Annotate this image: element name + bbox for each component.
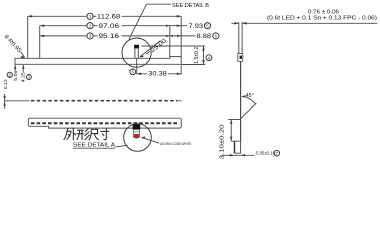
section FPC verticals (239, 22, 242, 54)
LED black cap (134, 45, 139, 49)
dim line 97.06 / 7.93 (40, 25, 187, 27)
寸 (101, 130, 109, 132)
45 deg arrow (241, 95, 246, 98)
svg-text:95.16: 95.16 (99, 34, 120, 40)
extension line left for dim 97.06 (39, 26, 41, 58)
extension line y=64.6 right (181, 64, 205, 66)
形 (77, 129, 83, 131)
leader to circle A (116, 145, 128, 147)
svg-text:7: 7 (276, 151, 279, 156)
svg-text:4.25: 4.25 (20, 72, 26, 82)
svg-text:LED BIN CODE WHITE: LED BIN CODE WHITE (160, 142, 192, 146)
dim 0.12 vertical with arrows (4, 94, 6, 109)
thin strip line (5, 100, 182, 102)
svg-text:(0.6t LED + 0.1 Sn + 0.13 FPC: (0.6t LED + 0.1 Sn + 0.13 FPC - 0.06) (267, 16, 377, 22)
LED A red bin mark (133, 134, 140, 138)
LED A lower outline (133, 129, 139, 134)
balloon 2 left (7, 72, 12, 77)
arrow 4.25 (22, 65, 24, 69)
LED section box (238, 54, 243, 62)
extension lines right cluster (169, 25, 171, 56)
45 deg bend line (241, 103, 256, 119)
LED U-body in detail B (135, 48, 138, 58)
detail circle B (122, 38, 151, 67)
arrow 5.06 (14, 65, 16, 69)
svg-text:SEE DETAIL A: SEE DETAIL A (73, 143, 116, 149)
dim line 112.68 (28, 15, 182, 17)
dim 5.05 line (222, 154, 255, 156)
svg-text:5.05±0.15: 5.05±0.15 (256, 150, 275, 156)
detail circle A (124, 124, 152, 152)
dim line 95.16 / 8.88 (40, 35, 196, 37)
balloon 3 left (26, 75, 31, 80)
ext tick y117 (228, 119, 241, 121)
balloon 5 (204, 23, 210, 29)
svg-text:0.12: 0.12 (3, 79, 9, 89)
bar outline (side view) (15, 57, 181, 65)
balloon 4 (206, 55, 212, 61)
svg-text:7.93: 7.93 (189, 24, 204, 30)
svg-text:SEE DETAIL B: SEE DETAIL B (172, 3, 209, 9)
balloon 3 (87, 33, 93, 39)
balloon 5b (130, 69, 136, 75)
pad dashes (31, 122, 177, 124)
balloon 7 (274, 150, 280, 156)
svg-text:5.06: 5.06 (13, 70, 19, 80)
svg-text:2: 2 (89, 23, 92, 28)
svg-text:3: 3 (28, 75, 31, 80)
svg-text:97.06: 97.06 (99, 24, 120, 30)
svg-text:45°: 45° (246, 93, 254, 99)
LED A black body (133, 124, 141, 129)
svg-text:3.10±0.20: 3.10±0.20 (219, 124, 225, 159)
dim line 0.76 (231, 22, 377, 24)
svg-text:5: 5 (132, 70, 135, 75)
balloon 2 (87, 23, 93, 29)
diagonal leader 25.00 (140, 41, 161, 57)
svg-text:1: 1 (89, 14, 92, 19)
外 (67, 128, 68, 131)
svg-text:1.5±0.2: 1.5±0.2 (194, 47, 200, 64)
尺 (91, 129, 97, 133)
dim 30.38 (136, 59, 138, 75)
extension line y=46 from LED to dim 4 (142, 45, 206, 47)
section lower vertical (240, 61, 242, 141)
extension line left for dim 112.68 (27, 16, 29, 58)
foot of section (231, 141, 241, 153)
svg-text:2: 2 (9, 72, 12, 77)
svg-text:112.68: 112.68 (97, 14, 121, 20)
svg-text:5: 5 (206, 23, 209, 28)
leader LED BIN (142, 138, 159, 144)
svg-text:8.88: 8.88 (197, 34, 212, 40)
LED section chip (240, 56, 242, 59)
LED dashes on strip (31, 100, 177, 102)
dim line 4 vertical (1.5±0.2) (203, 46, 205, 65)
leader to SEE DETAIL B (129, 4, 171, 39)
svg-text:8-R0.95: 8-R0.95 (3, 34, 22, 54)
balloon 1 (87, 13, 93, 19)
svg-text:3: 3 (89, 34, 92, 39)
dim 3.10 vertical (230, 120, 232, 142)
bar outline (top view) (28, 118, 181, 128)
svg-text:30.38: 30.38 (148, 71, 167, 77)
svg-text:6: 6 (215, 34, 218, 39)
svg-text:4: 4 (208, 55, 211, 60)
balloon 6 (213, 33, 219, 39)
外形尺寸 hand strokes (64, 128, 109, 140)
